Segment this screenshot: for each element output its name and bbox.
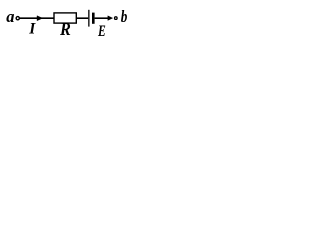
battery E short plate <box>92 13 95 24</box>
resistor R <box>54 13 76 23</box>
svg-text:I: I <box>28 21 36 38</box>
terminal a <box>16 17 19 20</box>
svg-text:R: R <box>59 20 71 40</box>
current arrow I <box>37 16 43 21</box>
wire <box>77 17 89 19</box>
terminal b <box>115 17 118 20</box>
battery E long plate <box>88 10 90 27</box>
svg-text:E: E <box>97 22 106 39</box>
svg-text:b: b <box>121 9 128 27</box>
svg-text:a: a <box>6 7 14 26</box>
wire <box>95 17 109 19</box>
wire <box>20 17 55 19</box>
current arrow at b <box>108 16 113 21</box>
